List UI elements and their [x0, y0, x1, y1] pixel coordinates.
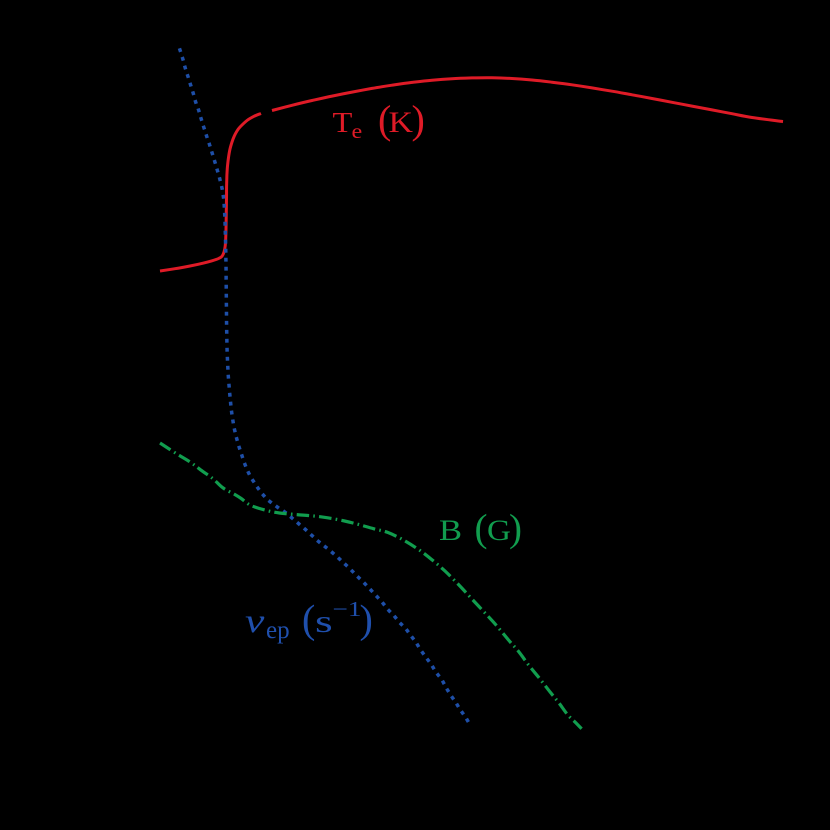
curve Te left segment (red solid) — [160, 114, 261, 272]
label nu_ep (s-1) blue — [245, 597, 373, 645]
curve Te right segment (red solid) — [272, 78, 783, 122]
svg-text:(: ( — [475, 507, 488, 550]
svg-text:): ) — [412, 97, 425, 142]
svg-text:s: s — [315, 604, 333, 639]
svg-text:ν: ν — [245, 602, 265, 639]
svg-text:T: T — [333, 107, 353, 139]
svg-text:): ) — [509, 507, 522, 550]
svg-text:K: K — [389, 105, 413, 139]
curve nu_ep (blue dotted) — [180, 50, 470, 725]
svg-text:ep: ep — [266, 617, 290, 644]
svg-text:e: e — [352, 119, 363, 142]
label B (G) green — [439, 507, 522, 550]
svg-text:): ) — [360, 597, 373, 642]
curve B (green dash-dot) — [160, 443, 582, 729]
svg-text:(: ( — [302, 597, 315, 642]
svg-text:G: G — [487, 513, 511, 546]
label Te (K) red — [333, 97, 425, 143]
svg-text:B: B — [439, 513, 462, 546]
svg-text:−1: −1 — [333, 598, 362, 621]
